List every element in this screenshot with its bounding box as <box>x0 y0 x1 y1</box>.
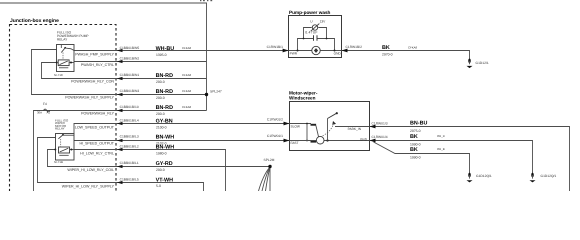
svg-text:C1BB01B/10: C1BB01B/10 <box>120 105 139 109</box>
svg-text:200-0: 200-0 <box>156 80 165 84</box>
svg-text:C1RW1B/2: C1RW1B/2 <box>346 45 363 49</box>
wire row10 fuse feed from off-page bottom <box>34 111 207 192</box>
svg-text:BN-RD: BN-RD <box>156 105 173 111</box>
svg-text:BN-RD: BN-RD <box>156 89 173 95</box>
svg-text:200-0: 200-0 <box>156 168 165 172</box>
svg-text:G1D12Q/1: G1D12Q/1 <box>476 174 492 178</box>
relay R1 powerwash pump relay <box>54 31 89 77</box>
svg-text:Pump-power wash: Pump-power wash <box>289 10 331 15</box>
relay R2 wiper hi/low relay <box>54 119 74 164</box>
svg-text:VT-WH: VT-WH <box>156 177 173 183</box>
svg-text:SLOW: SLOW <box>291 125 300 129</box>
svg-text:0.47UF: 0.47UF <box>305 30 317 34</box>
ground G1D12Q/1 right <box>530 173 557 183</box>
pin arrow pump PWR <box>283 49 289 53</box>
svg-text:GY-BN: GY-BN <box>156 118 173 124</box>
fast brush <box>311 141 317 143</box>
svg-text:C1BB01B/L2: C1BB01B/L2 <box>120 145 139 149</box>
svg-text:F4: F4 <box>43 102 47 106</box>
ground G1D12/1 <box>467 59 489 69</box>
svg-text:CFKA8: CFKA8 <box>182 46 191 50</box>
svg-text:C1BB01B/N1: C1BB01B/N1 <box>120 73 140 77</box>
svg-text:Windscreen: Windscreen <box>289 96 316 101</box>
svg-text:GND: GND <box>334 51 342 55</box>
junction border pin arrows <box>117 49 123 184</box>
splice SPL247 <box>205 89 222 96</box>
svg-text:PWASH_RLY_CTRL: PWASH_RLY_CTRL <box>81 63 114 67</box>
pin arrow motor SLOW <box>284 122 290 126</box>
junction box dashed border <box>10 25 117 197</box>
svg-text:C1RW01/2: C1RW01/2 <box>267 117 283 121</box>
svg-text:BN-BU: BN-BU <box>410 120 427 126</box>
wire L4 row GY-BN low speed output <box>74 124 290 134</box>
wire L2 row BN-WH coil ctrl <box>74 150 226 192</box>
svg-text:POWERWASH_RLY: POWERWASH_RLY <box>81 112 114 116</box>
svg-text:BK: BK <box>410 134 418 140</box>
wire BK ground OR_B <box>374 142 470 173</box>
partial clipped text top edge <box>200 0 212 1</box>
wire BN-BU park signal <box>370 127 570 192</box>
svg-text:OR_B: OR_B <box>437 147 445 151</box>
svg-text:OR_D: OR_D <box>437 134 445 138</box>
wire BK ground OR_D <box>370 141 533 174</box>
svg-text:G1D12Q/1: G1D12Q/1 <box>541 174 557 178</box>
svg-text:NI-T18: NI-T18 <box>54 73 63 77</box>
linkage dashed arc <box>323 123 335 136</box>
svg-text:2970-0: 2970-0 <box>382 53 393 57</box>
svg-text:1980-0: 1980-0 <box>156 152 167 156</box>
svg-text:C1RW01/3: C1RW01/3 <box>372 122 388 126</box>
wire N5 row WH-BU pump supply <box>74 50 289 52</box>
varistor branch <box>304 28 312 39</box>
svg-text:BK: BK <box>410 147 418 153</box>
svg-text:FAST: FAST <box>291 141 299 145</box>
splice SPL2M <box>264 158 275 168</box>
internal bottom wire <box>290 140 370 142</box>
ground G1D12Q/1 left <box>467 173 492 183</box>
svg-text:RELAY: RELAY <box>55 127 65 131</box>
svg-text:1395-0: 1395-0 <box>156 53 167 57</box>
svg-text:CFKA8: CFKA8 <box>182 89 191 93</box>
svg-text:BK: BK <box>382 45 390 51</box>
pin names inside junction box (below wires) <box>62 53 115 189</box>
wire relay R2 common left loop to L5 VT-WH <box>38 138 204 192</box>
svg-text:PWR: PWR <box>290 51 298 55</box>
svg-text:CFKA8: CFKA8 <box>182 105 191 109</box>
pump-power wash component <box>289 10 342 57</box>
svg-text:2100-0: 2100-0 <box>156 125 167 129</box>
svg-text:WIPER_HI_LOW_RLY_COIL: WIPER_HI_LOW_RLY_COIL <box>67 168 114 172</box>
wire colour + gauge labels <box>156 46 192 188</box>
pump motor symbol <box>312 46 320 54</box>
wire BK pump to ground <box>342 51 470 61</box>
pin arrow motor FAST <box>284 139 290 143</box>
svg-text:HI_SPEED_OUTPUT: HI_SPEED_OUTPUT <box>79 142 114 146</box>
svg-text:C1RW01/4: C1RW01/4 <box>372 135 388 139</box>
svg-text:PARK_IN: PARK_IN <box>348 127 362 131</box>
svg-text:30A: 30A <box>37 110 42 114</box>
svg-text:BN-RD: BN-RD <box>156 73 173 79</box>
slow brush <box>311 124 317 126</box>
svg-text:C1BB01B/N5: C1BB01B/N5 <box>120 46 140 50</box>
wire N3 row from relay R1 common left loop <box>32 50 207 95</box>
svg-text:13V: 13V <box>320 19 327 23</box>
svg-text:WH-BU: WH-BU <box>156 46 175 52</box>
svg-text:C1BB01B/L1: C1BB01B/L1 <box>120 161 139 165</box>
svg-text:GY-RD: GY-RD <box>156 161 173 167</box>
wire N1 row from relay R1 coil left loop <box>42 63 207 79</box>
svg-text:GND: GND <box>360 137 368 141</box>
motor armature <box>316 136 324 144</box>
pin arrow motor PARK <box>370 125 376 129</box>
pump main wire <box>289 50 342 52</box>
fuse F4 <box>37 102 50 114</box>
svg-text:200-0: 200-0 <box>156 112 165 116</box>
connector labels right of border (above wires) <box>120 46 140 182</box>
svg-text:Junction-box engine: Junction-box engine <box>10 18 59 24</box>
svg-text:CFKA8: CFKA8 <box>182 73 191 77</box>
svg-text:2075-0: 2075-0 <box>410 129 421 133</box>
svg-text:1990-0: 1990-0 <box>410 143 421 147</box>
svg-text:BN-WH: BN-WH <box>156 135 175 141</box>
wire L3 row BN-WH hi speed to motor FAST <box>74 140 290 142</box>
wire splice SPL2M bundle fan <box>269 167 271 192</box>
svg-text:RELAY: RELAY <box>57 37 68 41</box>
motor-wiper windscreen component <box>289 91 370 151</box>
svg-text:G1D12/1: G1D12/1 <box>476 61 489 65</box>
svg-text:PWASH_PMP_SUPPLY: PWASH_PMP_SUPPLY <box>75 53 114 57</box>
svg-text:C1BB01B/L4: C1BB01B/L4 <box>120 118 139 122</box>
svg-text:C1RW01/1: C1RW01/1 <box>267 134 283 138</box>
svg-text:C1BB01B/N3: C1BB01B/N3 <box>120 89 140 93</box>
svg-text:HI_LOW_RLY_CTRL: HI_LOW_RLY_CTRL <box>80 152 114 156</box>
park switch <box>326 139 328 141</box>
svg-text:POWERWASH_RLY_CON: POWERWASH_RLY_CON <box>71 80 114 84</box>
svg-text:C1BB01B/N2: C1BB01B/N2 <box>120 56 140 60</box>
svg-text:CFKA8: CFKA8 <box>408 45 417 49</box>
svg-text:SPL2M: SPL2M <box>264 158 275 162</box>
svg-text:A1: A1 <box>47 110 51 114</box>
svg-text:WIPER_HI_LOW_RLY_SUPPLY: WIPER_HI_LOW_RLY_SUPPLY <box>62 184 115 188</box>
wire off-page top net y3 <box>0 3 207 111</box>
svg-text:POWERWASH_RLY_SUPPLY: POWERWASH_RLY_SUPPLY <box>65 96 114 100</box>
svg-text:C1BB01B/L3: C1BB01B/L3 <box>120 135 139 139</box>
pin arrow pump GND <box>342 49 348 53</box>
svg-text:C1BB01B/L5: C1BB01B/L5 <box>120 177 139 181</box>
svg-text:1990-0: 1990-0 <box>410 156 421 160</box>
svg-text:C1RW1B/1: C1RW1B/1 <box>267 45 284 49</box>
wire L1 row GY-RD from relay R2 coil left loop <box>48 150 271 167</box>
svg-text:200-0: 200-0 <box>156 96 165 100</box>
svg-text:NI-T1B: NI-T1B <box>54 160 63 164</box>
svg-text:LOW_SPEED_OUTPUT: LOW_SPEED_OUTPUT <box>75 125 115 129</box>
svg-text:5-0: 5-0 <box>156 184 161 188</box>
wire N2 row relay coil ctrl <box>74 61 207 63</box>
svg-text:BN-WH: BN-WH <box>156 145 175 151</box>
capacitor branch <box>298 39 314 51</box>
svg-text:SPL247: SPL247 <box>210 89 222 93</box>
pin arrow motor GND <box>370 139 376 143</box>
